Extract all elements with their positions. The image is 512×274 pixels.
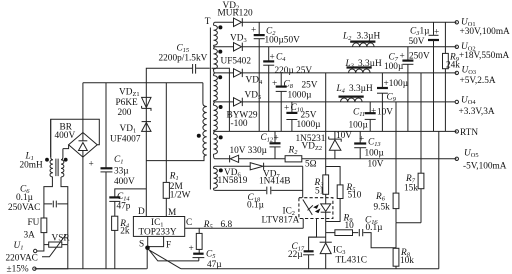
resistor R3 51 bbox=[314, 73, 329, 198]
svg-text:1000µ: 1000µ bbox=[288, 91, 313, 101]
svg-text:+: + bbox=[89, 160, 94, 170]
svg-text:510: 510 bbox=[348, 191, 362, 201]
S pin wire and junction bbox=[145, 236, 150, 268]
fuse FU 3A bbox=[24, 203, 47, 241]
svg-text:15k: 15k bbox=[404, 184, 418, 194]
svg-text:LTV817A: LTV817A bbox=[262, 216, 300, 226]
diode VD1 UF4007 bbox=[110, 122, 151, 145]
TL431 cathode column bbox=[325, 219, 327, 243]
capacitor C14 47p bbox=[109, 189, 146, 216]
svg-text:+: + bbox=[251, 26, 256, 36]
svg-text:0.1µ: 0.1µ bbox=[16, 193, 34, 203]
svg-text:250V: 250V bbox=[409, 52, 430, 62]
svg-text:F: F bbox=[166, 241, 171, 251]
svg-text:+30V,100mA: +30V,100mA bbox=[460, 27, 511, 37]
svg-text:0.1µ: 0.1µ bbox=[366, 223, 384, 233]
wire U1 neutral bottom bbox=[36, 245, 68, 269]
resistor R8 10k bbox=[393, 223, 414, 269]
RTN rail bbox=[215, 130, 457, 132]
output terminal UO4 +3.3V bbox=[455, 96, 495, 117]
svg-text:+: + bbox=[270, 53, 275, 63]
capacitor C3 1µ 50V bbox=[409, 22, 440, 131]
resistor R5 510 bbox=[326, 167, 362, 222]
capacitor C5 47µ bbox=[189, 244, 223, 270]
svg-text:400V: 400V bbox=[55, 131, 76, 141]
resistor R7 15k bbox=[404, 73, 424, 223]
drain wire from primary to D pin bbox=[146, 156, 204, 161]
+18V rail bbox=[215, 46, 457, 48]
output terminal UO2 +18V bbox=[455, 42, 509, 61]
capacitor C16 0.1µ bbox=[359, 216, 396, 248]
diode VD3 UF5402 bbox=[221, 34, 252, 67]
svg-text:P6KE: P6KE bbox=[116, 98, 139, 108]
svg-text:D: D bbox=[138, 207, 145, 217]
winding W4 dot bbox=[219, 105, 223, 109]
svg-text:6.8: 6.8 bbox=[221, 220, 233, 230]
svg-text:9.5k: 9.5k bbox=[374, 203, 391, 213]
svg-text:+: + bbox=[284, 104, 289, 114]
svg-text:+: + bbox=[359, 135, 364, 145]
svg-text:+: + bbox=[189, 244, 194, 254]
svg-text:UF5402: UF5402 bbox=[221, 57, 252, 67]
diode VD4 bbox=[234, 69, 263, 86]
output terminal RTN bbox=[455, 128, 478, 138]
svg-text:22µ: 22µ bbox=[288, 250, 303, 260]
svg-text:0.1µ: 0.1µ bbox=[247, 201, 265, 211]
svg-text:3.3µH: 3.3µH bbox=[357, 32, 381, 42]
capacitor C11 100µ 10V bbox=[349, 102, 394, 131]
secondary winding W4 bbox=[214, 102, 218, 131]
svg-text:1000µ: 1000µ bbox=[297, 120, 322, 130]
svg-text:33µ: 33µ bbox=[114, 167, 129, 177]
svg-text:50V: 50V bbox=[409, 37, 425, 47]
svg-text:100µ: 100µ bbox=[349, 121, 369, 131]
svg-text:10V 330µ: 10V 330µ bbox=[230, 146, 268, 156]
wire S to secondary ground rail bbox=[149, 250, 181, 269]
svg-text:10k: 10k bbox=[400, 256, 414, 266]
svg-text:FU: FU bbox=[28, 218, 40, 228]
feedback junction wire bbox=[396, 222, 421, 224]
svg-text:5Ω: 5Ω bbox=[305, 160, 317, 170]
svg-text:10V: 10V bbox=[377, 108, 393, 118]
svg-text:RTN: RTN bbox=[460, 128, 478, 138]
svg-text:UF4007: UF4007 bbox=[110, 135, 141, 145]
opto collector wire bbox=[302, 166, 304, 197]
svg-text:250VAC: 250VAC bbox=[8, 203, 40, 213]
winding W5 dot bbox=[219, 135, 223, 139]
svg-text:2200p/1.5kV: 2200p/1.5kV bbox=[159, 54, 208, 64]
-5V rail bbox=[215, 158, 457, 160]
svg-text:TOP233Y: TOP233Y bbox=[139, 228, 177, 238]
secondary winding W1 bbox=[214, 22, 218, 47]
wire U1 live to fuse bbox=[37, 233, 44, 251]
wire S to C5 ground bbox=[149, 249, 199, 261]
F pin wire bbox=[148, 236, 164, 246]
capacitor C4 220µ 25V bbox=[263, 47, 312, 132]
svg-text:1N5819: 1N5819 bbox=[218, 176, 248, 186]
top DC rail bbox=[83, 82, 203, 84]
svg-text:S: S bbox=[139, 240, 144, 250]
output terminal UO1 +30V bbox=[455, 18, 510, 38]
svg-text:±15%: ±15% bbox=[7, 265, 29, 274]
inductor L2 3.3µH bbox=[342, 32, 380, 47]
winding W2 dot bbox=[218, 50, 222, 54]
bias winding W6 bbox=[214, 166, 218, 190]
svg-text:24k: 24k bbox=[446, 61, 460, 71]
svg-text:10: 10 bbox=[345, 221, 355, 231]
svg-text:+: + bbox=[434, 28, 439, 38]
svg-text:3.3µH: 3.3µH bbox=[358, 59, 382, 69]
svg-text:-100: -100 bbox=[231, 119, 248, 129]
winding W6 dot bbox=[219, 168, 223, 172]
zener VDZ1 P6KE200 bbox=[116, 88, 152, 119]
output terminal UO5 -5V bbox=[455, 148, 507, 171]
svg-text:+: + bbox=[272, 79, 277, 89]
X-capacitor C6 0.1µ 250VAC bbox=[8, 185, 68, 214]
svg-text:+100µ: +100µ bbox=[384, 79, 409, 89]
svg-text:+: + bbox=[400, 52, 405, 62]
output terminal UO3 +5V bbox=[455, 66, 496, 86]
svg-text:400V: 400V bbox=[114, 177, 135, 187]
svg-text:1µ: 1µ bbox=[420, 27, 431, 37]
bridge rectifier BR 400V bbox=[51, 119, 100, 157]
svg-text:25V: 25V bbox=[301, 111, 317, 121]
transformer T core bbox=[205, 17, 211, 190]
svg-text:51: 51 bbox=[315, 187, 325, 197]
svg-text:220µ 25V: 220µ 25V bbox=[275, 66, 313, 76]
clamp column node bbox=[145, 83, 147, 217]
bias wire VD7 row bbox=[215, 165, 303, 167]
+3.3V rail bbox=[215, 101, 456, 103]
winding W1 dot bbox=[218, 25, 222, 29]
svg-text:TL431C: TL431C bbox=[336, 256, 368, 266]
svg-text:47p: 47p bbox=[117, 202, 131, 212]
opto emitter wire to C pin bbox=[302, 219, 304, 229]
svg-text:C: C bbox=[186, 218, 192, 228]
optocoupler IC2 LTV817A bbox=[262, 198, 333, 226]
svg-text:MUR120: MUR120 bbox=[218, 9, 253, 19]
wire C6 box left bbox=[44, 177, 53, 203]
svg-text:10V: 10V bbox=[368, 160, 384, 170]
svg-text:3.3µH: 3.3µH bbox=[349, 84, 373, 94]
capacitor C7 100µ 250V bbox=[384, 47, 430, 132]
bulk capacitor C1 33µ 400V bbox=[89, 83, 135, 269]
wire bridge DC- down to bottom rail bbox=[82, 157, 84, 269]
resistor R2 5Ω bbox=[285, 146, 317, 170]
capacitor C17 22µ bbox=[288, 237, 326, 269]
IC3 TL431C bbox=[320, 242, 367, 269]
svg-text:20mH: 20mH bbox=[20, 161, 44, 171]
inductor L3 3.3µH bbox=[345, 59, 382, 73]
svg-text:1/2W: 1/2W bbox=[170, 191, 191, 201]
svg-text:+3.3V,3A: +3.3V,3A bbox=[459, 107, 495, 117]
capacitor C8 1000µ 25V bbox=[272, 73, 318, 131]
resistor R4 2k bbox=[112, 216, 130, 269]
inductor L4 3.3µH bbox=[336, 84, 373, 102]
capacitor C9 100µ bbox=[377, 73, 409, 131]
svg-text:+18V,550mA: +18V,550mA bbox=[459, 51, 510, 61]
AC input terminal U1 (220VAC ±15%) bbox=[6, 241, 38, 274]
diode VD6 1N5819 bbox=[218, 155, 248, 186]
capacitor C13 100µ 10V bbox=[354, 131, 384, 169]
svg-text:+5V,2.5A: +5V,2.5A bbox=[460, 76, 496, 86]
secondary ground rail bbox=[181, 268, 439, 270]
capacitor C18 0.1µ bbox=[247, 187, 271, 211]
resistor R6 9.5k bbox=[374, 102, 399, 223]
control pin wire bbox=[185, 227, 304, 229]
wire bridge DC+ up to top rail bbox=[82, 83, 84, 133]
diode VD7 1N414B bbox=[250, 163, 290, 187]
winding W3 dot bbox=[218, 75, 222, 79]
svg-text:3A: 3A bbox=[24, 231, 36, 241]
secondary winding W3 bbox=[214, 73, 218, 102]
svg-text:T: T bbox=[205, 17, 211, 27]
secondary winding W2 bbox=[214, 47, 218, 73]
svg-text:-5V,100mA: -5V,100mA bbox=[463, 162, 507, 172]
zener VDZ2 1N5231 10V bbox=[296, 131, 353, 159]
common-mode choke L1 20mH bbox=[20, 119, 68, 177]
svg-text:1N414B: 1N414B bbox=[259, 177, 291, 187]
svg-text:100µ50V: 100µ50V bbox=[265, 36, 301, 46]
svg-text:100µ: 100µ bbox=[365, 149, 385, 159]
svg-text:25V: 25V bbox=[302, 81, 318, 91]
svg-text:100µ: 100µ bbox=[384, 62, 404, 72]
diode VD5 BYW29-100 bbox=[227, 91, 262, 130]
diode VD2 MUR120 bbox=[218, 1, 253, 27]
capacitor C12 330µ 10V bbox=[230, 131, 281, 158]
+30V rail bbox=[215, 21, 457, 23]
bias wire C18 row bbox=[215, 189, 303, 191]
secondary winding W5 bbox=[214, 131, 218, 158]
svg-text:10V: 10V bbox=[336, 131, 352, 141]
Y-cap return line to RTN bbox=[212, 68, 230, 131]
sense resistor R1 2M 1/2W bbox=[163, 83, 190, 217]
snubber capacitor C15 2200p/1.5kV bbox=[146, 44, 210, 83]
svg-text:+: + bbox=[274, 134, 279, 144]
capacitor C10 1000µ 25V bbox=[284, 102, 321, 131]
transformer primary winding bbox=[203, 83, 207, 161]
resistor R9 24k bbox=[443, 22, 461, 131]
compensation wire with R9 10 bbox=[326, 214, 359, 236]
+5V rail bbox=[215, 72, 457, 74]
ground rail riser to RTN bbox=[438, 131, 440, 268]
capacitor C2 100µ 50V bbox=[251, 22, 300, 131]
opto LED cathode stub bbox=[309, 219, 317, 238]
svg-text:220VAC: 220VAC bbox=[6, 254, 38, 264]
IC1 TOP233Y bbox=[133, 207, 192, 251]
svg-text:+: + bbox=[371, 107, 376, 117]
svg-text:M: M bbox=[168, 208, 176, 218]
svg-text:200: 200 bbox=[118, 108, 132, 118]
wire C6 box right bbox=[61, 177, 68, 245]
primary polarity dot bbox=[197, 134, 201, 138]
varistor VSR bbox=[42, 234, 70, 257]
svg-text:2k: 2k bbox=[120, 227, 130, 237]
resistor R5 6.8 bbox=[196, 220, 232, 249]
bottom primary rail bbox=[34, 268, 146, 270]
